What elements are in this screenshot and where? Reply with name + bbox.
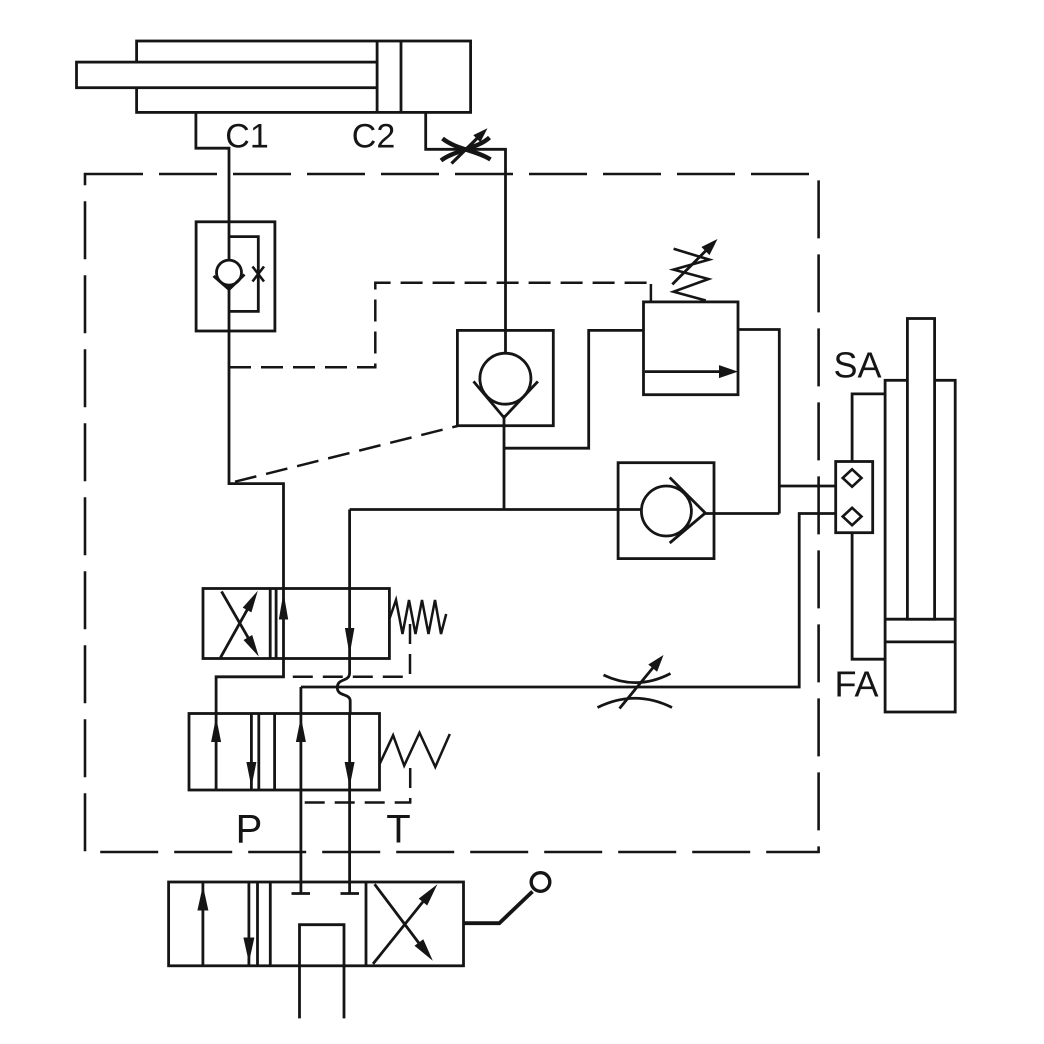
cylinder CYL2 piston	[885, 619, 955, 642]
wire junction line to check valves	[350, 508, 618, 511]
pilot line to check valve CV1 (dashed diagonal)	[235, 426, 457, 482]
svg-text:P: P	[236, 808, 263, 852]
quick coupler block	[836, 462, 873, 533]
valve V3 crossed arrows	[373, 884, 437, 964]
wire valve V1 to valve V2 left	[216, 659, 283, 714]
svg-text:C2: C2	[352, 118, 395, 156]
svg-text:C1: C1	[225, 118, 268, 156]
label C1	[225, 118, 268, 156]
cylinder CYL1 body	[137, 41, 471, 112]
valve V2 left cell arrows	[211, 714, 256, 791]
valve V1 crossed arrows	[221, 591, 259, 658]
check valve CV3 poppet	[214, 222, 245, 331]
cylinder CYL1 rod	[77, 62, 378, 88]
valve V2 cell dividers	[259, 714, 275, 791]
orifice bypass loop of CV3	[229, 237, 258, 312]
wire C1 line down to valve V1	[229, 331, 284, 589]
svg-text:FA: FA	[834, 664, 878, 705]
valve V1 cell dividers	[270, 589, 276, 659]
valve V3 left cell arrows	[197, 882, 254, 966]
wire CV1 branch to relief valve	[504, 330, 644, 448]
check valve CV2 poppet	[618, 478, 705, 544]
wire C2 port stub	[426, 112, 506, 330]
flow control FC2 (adjustable restrictor on FA line)	[598, 655, 673, 709]
directional valve V2 box	[189, 714, 380, 791]
pilot connection tick at relief valve	[650, 284, 653, 302]
pilot line to valve V2 (dashed)	[301, 768, 410, 803]
check valve with orifice CV3 outer box	[196, 222, 275, 331]
valve V2 spring	[380, 733, 450, 767]
wire FA port to cylinder	[852, 533, 885, 660]
valve V3 centre blocked ports	[292, 892, 360, 895]
wire junction down to valve V1	[348, 510, 351, 589]
wire CV2 outlet	[703, 512, 779, 515]
coupler nipple lower	[843, 508, 862, 525]
manual lever	[464, 873, 550, 924]
pilot-operated check valve CV1 box	[457, 330, 553, 425]
wire FA line from coupler lower port	[301, 514, 836, 688]
wire FA line down into valve V2	[299, 687, 302, 714]
orifice x symbol	[253, 267, 265, 282]
label T	[386, 808, 410, 852]
check valve CV1 poppet	[474, 330, 538, 417]
svg-text:SA: SA	[833, 345, 881, 386]
label C2	[352, 118, 395, 156]
wire SA port to cylinder	[852, 394, 885, 462]
valve V2 right cell arrows	[296, 714, 355, 791]
cylinder CYL2 rod	[907, 319, 934, 620]
check valve CV2 box	[618, 463, 714, 559]
relief valve RV1 spring	[674, 249, 710, 301]
svg-text:T: T	[386, 808, 410, 852]
pilot line from C1 line to relief valve (dashed)	[229, 283, 650, 367]
coupler nipple upper	[843, 469, 862, 486]
wire T line valve V2 to manual valve	[348, 790, 351, 894]
label SA	[833, 345, 881, 386]
valve V3 cell dividers	[258, 882, 367, 966]
manifold boundary (dashed enclosure)	[85, 174, 819, 852]
wire to coupler upper port	[779, 485, 835, 488]
valve V3 centre chamber	[300, 925, 345, 1019]
label FA	[834, 664, 878, 705]
cylinder CYL1 piston	[377, 41, 401, 112]
relief valve RV1 box	[644, 302, 739, 395]
cylinder CYL2 body	[885, 380, 955, 712]
directional valve V1 box	[203, 589, 389, 659]
valve V1 straight arrows	[279, 589, 355, 659]
valve V1 spring	[389, 600, 446, 634]
flow control FC1 (adjustable restrictor on C2 line)	[441, 128, 491, 163]
relief valve RV1 adjust arrow	[672, 239, 717, 284]
wire valve V1 to valve V2 right (with hop over FA line)	[337, 659, 350, 714]
pilot line to valve V1 (dashed)	[285, 624, 410, 677]
relief valve RV1 internal arrow	[645, 365, 738, 378]
wire P line valve V2 to manual valve	[299, 790, 302, 894]
label P	[236, 808, 263, 852]
wire relief valve outlet	[738, 330, 779, 514]
wire C1 port stub	[196, 112, 229, 221]
manual directional valve V3 box	[169, 882, 464, 966]
wire CV1 bottom to junction	[503, 415, 506, 510]
